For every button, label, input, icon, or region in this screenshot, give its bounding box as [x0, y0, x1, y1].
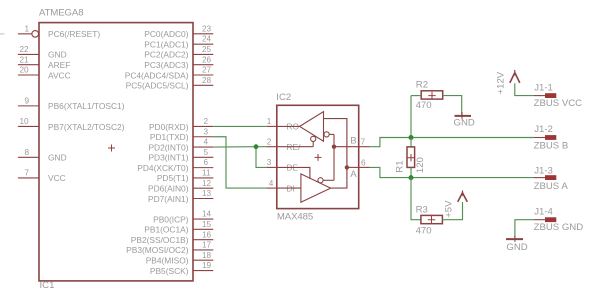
svg-text:+12V: +12V — [496, 71, 507, 94]
svg-text:10: 10 — [20, 117, 30, 126]
wire branch INT0 to DE — [256, 147, 266, 168]
IC1 pin 28 PC5(ADC5/SCL) — [126, 76, 214, 91]
wire R2 left leg down to net B — [410, 96, 412, 138]
svg-text:470: 470 — [416, 100, 432, 111]
IC2 internal B vertical — [334, 134, 359, 180]
IC1 pin 12 PD6(AIN0) — [148, 179, 213, 194]
svg-text:6: 6 — [361, 158, 366, 167]
svg-text:+5V: +5V — [444, 200, 455, 218]
supply symbol +5V arrow — [458, 191, 468, 202]
IC2 internal junction A — [345, 165, 359, 169]
junction net B / R1 — [409, 135, 414, 140]
svg-text:ZBUS A: ZBUS A — [534, 181, 569, 192]
IC2 driver output B bubble — [318, 178, 334, 183]
svg-text:23: 23 — [202, 24, 212, 33]
R2 value label 470 — [416, 100, 432, 111]
connector J1-2 pad — [545, 135, 556, 140]
svg-text:15: 15 — [202, 220, 212, 229]
IC2 receiver input A line — [324, 119, 347, 189]
svg-text:IC1: IC1 — [40, 280, 55, 291]
svg-text:PB7(XTAL2/TOSC2): PB7(XTAL2/TOSC2) — [48, 122, 125, 132]
R3 name label — [416, 205, 428, 216]
IC1 pin 18 PB4(MISO) — [146, 251, 214, 266]
ground symbol GND (J1-4) — [506, 236, 528, 254]
wire net A down to R3 — [411, 178, 421, 220]
svg-text:AVCC: AVCC — [48, 70, 71, 80]
IC1 pin 13 PD7(AIN1) — [148, 189, 213, 204]
connector J1-3 pin stub — [534, 177, 545, 179]
svg-text:8: 8 — [25, 148, 30, 157]
junction INT0 net — [254, 144, 259, 149]
wire R1 top lead — [410, 138, 412, 148]
resistor R3 — [421, 215, 443, 223]
IC2 designator label — [276, 92, 291, 103]
svg-text:PC1(ADC1): PC1(ADC1) — [144, 39, 188, 49]
svg-text:PB2(SS/OC1B): PB2(SS/OC1B) — [131, 235, 189, 245]
svg-text:28: 28 — [202, 76, 212, 85]
svg-text:PC2(ADC2): PC2(ADC2) — [144, 50, 188, 60]
svg-text:PD7(AIN1): PD7(AIN1) — [148, 194, 189, 204]
IC1 pin 7 VCC — [18, 169, 66, 184]
svg-text:20: 20 — [20, 66, 30, 75]
IC1 pin 16 PB2(SS/OC1B) — [131, 230, 214, 245]
svg-text:1: 1 — [267, 117, 272, 126]
net label ZBUS GND — [534, 222, 584, 233]
svg-text:9: 9 — [25, 96, 30, 105]
IC1 pin 25 PC2(ADC2) — [144, 45, 213, 60]
svg-text:16: 16 — [202, 230, 212, 239]
wire J1-4 to GND — [515, 220, 534, 238]
svg-text:PC6(/RESET): PC6(/RESET) — [48, 29, 100, 39]
connector J1-4 pin stub — [534, 219, 545, 221]
svg-text:PB3(MOSI/OC2): PB3(MOSI/OC2) — [126, 245, 189, 255]
IC2 pin 4 DI — [266, 179, 295, 194]
wire R2 right to GND — [443, 96, 462, 115]
svg-text:1: 1 — [25, 24, 30, 33]
IC2 origin cross — [315, 154, 322, 161]
svg-text:PB1(OC1A): PB1(OC1A) — [144, 225, 188, 235]
wire net B from pin7 to J1-2 — [370, 138, 535, 147]
wire R3 right to +5V — [442, 202, 462, 220]
svg-text:PD6(AIN0): PD6(AIN0) — [148, 184, 189, 194]
svg-text:4: 4 — [269, 179, 274, 188]
svg-text:2: 2 — [204, 117, 209, 126]
svg-text:GND: GND — [48, 153, 67, 163]
svg-text:3: 3 — [204, 127, 209, 136]
svg-text:PD5(T1): PD5(T1) — [157, 173, 189, 183]
IC1 pin 3 PD1(TXD) — [150, 127, 213, 142]
svg-text:2: 2 — [267, 138, 272, 147]
svg-text:PD2(INT0): PD2(INT0) — [148, 142, 188, 152]
IC1 pin 22 GND — [18, 45, 67, 60]
svg-text:J1-1: J1-1 — [534, 83, 553, 94]
J1-2 designator label — [534, 124, 553, 135]
svg-text:PC4(ADC4/SDA): PC4(ADC4/SDA) — [125, 70, 189, 80]
svg-text:120: 120 — [415, 157, 426, 173]
IC1 pin 1 PC6(/RESET) — [18, 24, 100, 39]
svg-text:GND: GND — [506, 242, 527, 253]
svg-text:PB0(ICP): PB0(ICP) — [153, 214, 189, 224]
IC1 pin 19 PB5(SCK) — [150, 261, 213, 276]
IC1 pin 10 PB7(XTAL2/TOSC2) — [18, 117, 125, 132]
J1-4 designator label — [534, 207, 553, 218]
svg-text:PB6(XTAL1/TOSC1): PB6(XTAL1/TOSC1) — [48, 101, 125, 111]
net label ZBUS A — [534, 181, 569, 192]
R1 value label 120 (rotated) — [415, 157, 426, 173]
junction net A / R1 — [409, 175, 414, 180]
IC2 pin 1 RO — [266, 117, 299, 132]
svg-text:J1-4: J1-4 — [534, 207, 553, 218]
wire net A from pin6 to J1-3 — [370, 167, 535, 177]
IC1 pin 4 PD2(INT0) — [148, 138, 213, 153]
IC2 receiver input B bubble — [324, 132, 334, 137]
svg-text:11: 11 — [202, 169, 211, 178]
IC1 pin 26 PC3(ADC3) — [144, 55, 213, 70]
svg-text:ZBUS GND: ZBUS GND — [534, 222, 584, 233]
svg-text:7: 7 — [361, 138, 366, 147]
IC2 driver triangle — [277, 174, 331, 202]
IC2 pin 7 B — [359, 138, 370, 147]
IC IC2 MAX485 body — [277, 105, 359, 208]
svg-text:J1-2: J1-2 — [534, 124, 553, 135]
IC2 receiver enable bubble RE — [277, 136, 316, 146]
IC2 pin 3 DE — [266, 158, 298, 173]
svg-text:PD0(RXD): PD0(RXD) — [149, 122, 189, 132]
svg-text:5: 5 — [204, 148, 209, 157]
IC1 pin 14 PB0(ICP) — [153, 210, 213, 225]
svg-text:ATMEGA8: ATMEGA8 — [39, 8, 83, 19]
+5V net label (rotated) — [444, 200, 455, 218]
IC1 designator label — [40, 280, 55, 291]
wire R2 left stub — [411, 95, 421, 97]
svg-text:12: 12 — [202, 179, 212, 188]
svg-text:PB5(SCK): PB5(SCK) — [150, 266, 189, 276]
svg-text:470: 470 — [416, 225, 432, 236]
svg-text:22: 22 — [20, 45, 30, 54]
J1-1 designator label — [534, 83, 553, 94]
wire R1 bottom lead — [410, 167, 412, 177]
svg-text:R3: R3 — [416, 205, 428, 216]
svg-text:PC3(ADC3): PC3(ADC3) — [144, 60, 188, 70]
wire net INT0: PD2 to RE/ — [213, 146, 266, 148]
svg-text:VCC: VCC — [48, 173, 66, 183]
svg-text:PD3(INT1): PD3(INT1) — [148, 153, 188, 163]
svg-text:4: 4 — [204, 138, 209, 147]
net label ZBUS VCC — [534, 98, 583, 109]
R2 name label — [416, 80, 428, 91]
svg-text:3: 3 — [267, 158, 272, 167]
IC2 pin 2 RE/ — [266, 138, 301, 153]
connector J1-4 pad — [545, 217, 556, 222]
svg-text:25: 25 — [202, 45, 212, 54]
+12V net label (rotated) — [496, 71, 507, 94]
IC1 pin 9 PB6(XTAL1/TOSC1) — [18, 96, 125, 111]
net label ZBUS B — [534, 140, 569, 151]
svg-text:24: 24 — [202, 35, 212, 44]
IC1 pin 24 PC1(ADC1) — [144, 35, 213, 50]
svg-text:GND: GND — [48, 50, 67, 60]
svg-text:R1: R1 — [394, 160, 405, 172]
IC2 pin 6 A — [359, 158, 370, 167]
R1 name label (rotated) — [394, 160, 405, 172]
svg-text:19: 19 — [202, 261, 212, 270]
svg-text:ZBUS B: ZBUS B — [534, 140, 569, 151]
IC1 origin cross — [108, 145, 115, 152]
IC1 pin 5 PD3(INT1) — [148, 148, 213, 163]
IC2 driver enable DE line — [277, 167, 310, 179]
svg-text:ZBUS VCC: ZBUS VCC — [534, 98, 583, 109]
svg-text:14: 14 — [202, 210, 212, 219]
svg-text:18: 18 — [202, 251, 212, 260]
ground symbol GND (R2) — [454, 112, 475, 129]
connector J1-3 pad — [545, 175, 556, 180]
svg-text:AREF: AREF — [48, 60, 70, 70]
wire net RXD: PD0 to RO — [213, 125, 266, 127]
R3 value label 470 — [416, 225, 432, 236]
wire +12V to J1-1 — [515, 83, 534, 95]
svg-text:PD1(TXD): PD1(TXD) — [150, 132, 189, 142]
IC1 pin 11 PD5(T1) — [157, 169, 213, 184]
IC2 part label MAX485 — [277, 211, 313, 222]
svg-text:PB4(MISO): PB4(MISO) — [146, 256, 189, 266]
stray wire fragment at left edge — [0, 33, 5, 35]
connector J1-1 pad — [545, 93, 556, 98]
svg-text:13: 13 — [202, 189, 212, 198]
svg-text:B: B — [350, 135, 356, 146]
supply symbol +12V arrow — [510, 70, 520, 83]
svg-text:17: 17 — [202, 241, 212, 250]
svg-text:6: 6 — [204, 158, 209, 167]
IC1 pin 2 PD0(RXD) — [149, 117, 213, 132]
IC2 internal junction B — [332, 145, 336, 149]
resistor R2 — [421, 91, 443, 100]
wire net TXD: PD1 to DI — [213, 137, 266, 188]
IC1 pin 20 AVCC — [18, 66, 71, 81]
svg-text:A: A — [350, 169, 357, 180]
connector J1-2 pin stub — [534, 137, 545, 139]
svg-text:PD4(XCK/T0): PD4(XCK/T0) — [137, 163, 188, 173]
svg-text:GND: GND — [454, 118, 475, 129]
svg-text:7: 7 — [25, 169, 30, 178]
IC1 pin 23 PC0(ADC0) — [144, 24, 213, 39]
svg-text:21: 21 — [20, 55, 30, 64]
IC1 pin 17 PB3(MOSI/OC2) — [126, 241, 213, 256]
connector J1-1 pin stub — [534, 95, 545, 97]
J1-3 designator label — [534, 165, 553, 176]
resistor R1 — [407, 147, 415, 168]
svg-text:J1-3: J1-3 — [534, 165, 553, 176]
IC2 receiver triangle — [277, 112, 324, 142]
svg-text:26: 26 — [202, 55, 212, 64]
svg-text:PC5(ADC5/SCL): PC5(ADC5/SCL) — [126, 81, 189, 91]
svg-text:MAX485: MAX485 — [277, 211, 313, 222]
IC1 part label ATMEGA8 — [39, 8, 83, 19]
IC2 node label B — [350, 135, 356, 146]
svg-text:27: 27 — [202, 66, 212, 75]
IC1 pin 27 PC4(ADC4/SDA) — [125, 66, 214, 81]
svg-text:PC0(ADC0): PC0(ADC0) — [144, 29, 188, 39]
IC1 pin 21 AREF — [18, 55, 70, 70]
svg-text:IC2: IC2 — [276, 92, 291, 103]
IC1 pin 6 PD4(XCK/T0) — [137, 158, 213, 173]
svg-text:R2: R2 — [416, 80, 428, 91]
IC1 pin 8 GND — [18, 148, 67, 163]
IC2 node label A — [350, 169, 357, 180]
IC IC1 ATMEGA8 body — [39, 23, 193, 281]
IC1 pin 15 PB1(OC1A) — [144, 220, 213, 235]
